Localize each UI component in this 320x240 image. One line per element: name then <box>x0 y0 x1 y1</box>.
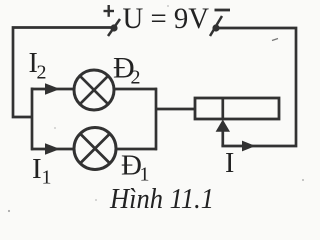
svg-text:U = 9V: U = 9V <box>123 2 210 35</box>
svg-text:I: I <box>225 148 234 179</box>
svg-text:I: I <box>32 153 42 185</box>
svg-text:2: 2 <box>37 62 47 84</box>
svg-text:Hình 11.1: Hình 11.1 <box>109 183 214 215</box>
svg-text:2: 2 <box>131 67 141 89</box>
svg-text:1: 1 <box>42 167 52 189</box>
